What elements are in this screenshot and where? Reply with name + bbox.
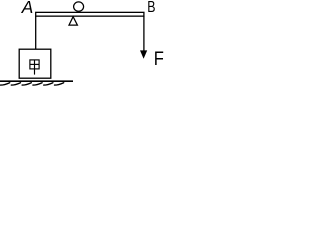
svg-text:A: A — [21, 0, 34, 17]
甲 character strokes — [30, 60, 39, 75]
ground line — [0, 80, 73, 82]
label F — [154, 48, 164, 70]
fulcrum triangle — [69, 17, 77, 25]
lever beam AB — [36, 12, 144, 16]
pivot circle O — [74, 2, 84, 11]
label A — [21, 0, 34, 17]
svg-text:B: B — [147, 0, 155, 16]
force line from B — [143, 16, 145, 52]
wire string from A down to block — [35, 16, 37, 50]
block 甲 outline — [19, 49, 51, 78]
label B — [147, 0, 155, 16]
svg-text:F: F — [154, 48, 164, 70]
force arrowhead — [140, 50, 147, 58]
ground hatch marks — [1, 83, 64, 85]
